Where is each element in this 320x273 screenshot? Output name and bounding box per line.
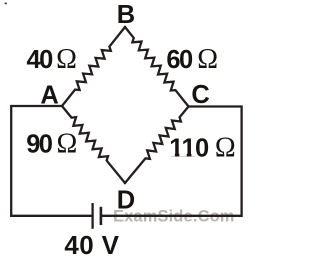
svg-text:C: C — [191, 81, 209, 109]
svg-text:A: A — [40, 82, 58, 110]
svg-text:Ω: Ω — [56, 44, 77, 75]
svg-text:110: 110 — [169, 134, 209, 162]
svg-text:D: D — [117, 187, 135, 215]
svg-text:B: B — [117, 1, 135, 29]
svg-text:Ω: Ω — [215, 132, 236, 163]
svg-text:90: 90 — [26, 131, 53, 159]
svg-text:Ω: Ω — [57, 129, 78, 160]
svg-text:40 V: 40 V — [64, 230, 119, 260]
svg-text:40: 40 — [27, 46, 54, 74]
svg-text:Ω: Ω — [197, 44, 218, 75]
svg-text:60: 60 — [166, 46, 193, 74]
